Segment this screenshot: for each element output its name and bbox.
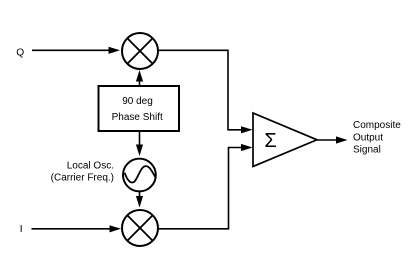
svg-text:Phase Shift: Phase Shift <box>112 112 163 123</box>
svg-text:I: I <box>20 224 23 235</box>
svg-text:Q: Q <box>16 47 24 58</box>
svg-text:Local Osc.: Local Osc. <box>67 161 114 172</box>
svg-text:90 deg: 90 deg <box>122 96 153 107</box>
svg-text:Composite: Composite <box>353 120 401 131</box>
svg-text:(Carrier Freq.): (Carrier Freq.) <box>51 172 114 183</box>
svg-text:Output: Output <box>353 132 383 143</box>
svg-text:Signal: Signal <box>353 145 381 156</box>
svg-text:Σ: Σ <box>264 130 276 152</box>
